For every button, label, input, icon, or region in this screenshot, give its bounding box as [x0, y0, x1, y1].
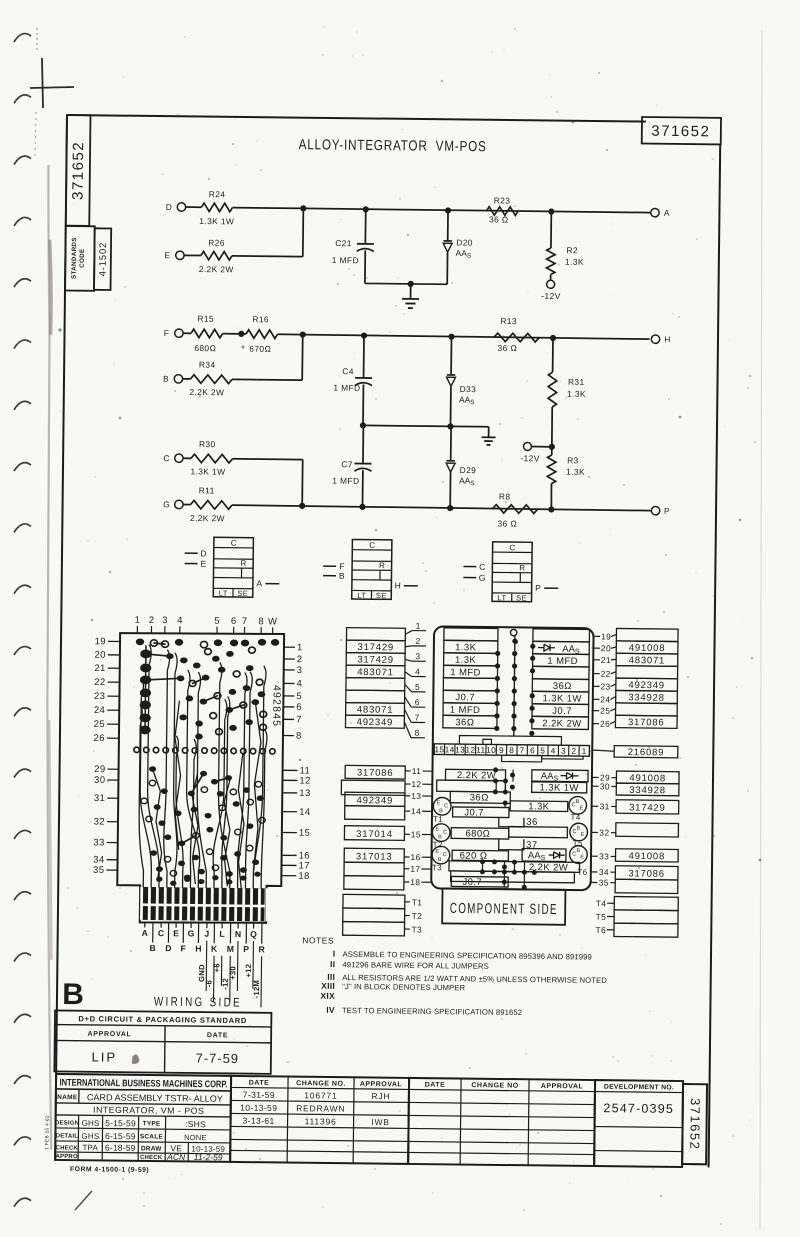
node C/G junction — [299, 503, 305, 509]
svg-text:J0.7: J0.7 — [455, 692, 475, 703]
svg-text:APPROVAL: APPROVAL — [360, 1081, 403, 1088]
svg-text:8: 8 — [509, 745, 514, 755]
svg-text:COMPONENT SIDE: COMPONENT SIDE — [450, 901, 558, 918]
svg-text:5: 5 — [214, 616, 220, 627]
node ground junction row1 — [408, 281, 414, 287]
svg-text:36 Ω: 36 Ω — [489, 214, 509, 224]
svg-text:33: 33 — [93, 837, 104, 848]
capacitor C4 — [363, 336, 365, 378]
part number boxes right rows 29-35 — [615, 771, 679, 893]
svg-text:7: 7 — [296, 714, 302, 725]
diode D33 — [450, 337, 452, 375]
svg-text:24: 24 — [94, 705, 105, 716]
svg-text:D20: D20 — [456, 237, 473, 247]
node P terminal — [651, 506, 659, 514]
node R2 junction — [548, 208, 554, 214]
svg-text:SCALE: SCALE — [140, 1133, 164, 1140]
svg-text:R8: R8 — [499, 491, 511, 501]
svg-text:C: C — [479, 562, 486, 572]
svg-text:G: G — [163, 499, 170, 509]
component box 680 ohm — [451, 828, 509, 839]
svg-text:1: 1 — [582, 746, 587, 756]
svg-text:1: 1 — [135, 615, 141, 626]
svg-text:R34: R34 — [199, 360, 216, 370]
svg-text:SE: SE — [237, 589, 248, 598]
resistor R2 — [546, 248, 555, 275]
component box AAS diode (upper) — [532, 770, 588, 782]
part number boxes right rows 19-26 — [615, 628, 678, 728]
svg-text:J0.7: J0.7 — [462, 877, 482, 888]
svg-text:21: 21 — [94, 663, 105, 674]
wire R30 to junction — [233, 458, 303, 461]
wire C to R30 — [183, 457, 191, 459]
svg-text::SHS: :SHS — [185, 1119, 206, 1129]
wire B to R34 — [183, 378, 191, 380]
diode row AAS with symbol — [538, 644, 555, 651]
svg-text:31: 31 — [600, 801, 610, 811]
svg-text:5: 5 — [296, 691, 302, 702]
svg-text:-6: -6 — [205, 980, 214, 987]
svg-text:14: 14 — [411, 806, 421, 816]
node G terminal — [175, 500, 183, 508]
svg-text:C7: C7 — [341, 459, 353, 469]
jumper step 37 — [499, 839, 524, 850]
svg-text:Q: Q — [250, 929, 257, 939]
resistor R8 — [492, 505, 537, 514]
svg-text:18: 18 — [410, 877, 420, 887]
svg-text:2.2K 2W: 2.2K 2W — [190, 513, 225, 523]
svg-text:-12V: -12V — [520, 453, 540, 463]
svg-text:491296 BARE WIRE FOR ALL JUMPE: 491296 BARE WIRE FOR ALL JUMPERS — [342, 960, 489, 971]
svg-text:317013: 317013 — [356, 851, 393, 862]
node C input — [463, 566, 476, 568]
title block table — [55, 1074, 232, 1162]
svg-text:T5: T5 — [596, 912, 607, 922]
svg-text:CHECK: CHECK — [140, 1155, 163, 1161]
svg-text:A: A — [142, 928, 148, 938]
svg-text:1.3K: 1.3K — [565, 257, 584, 267]
svg-text:F: F — [180, 943, 185, 953]
svg-text:J: J — [204, 929, 209, 939]
svg-text:1: 1 — [297, 642, 303, 653]
svg-text:2: 2 — [571, 746, 576, 756]
svg-text:483071: 483071 — [357, 667, 394, 678]
wire D to R24 — [186, 206, 202, 208]
svg-text:483071: 483071 — [629, 655, 666, 666]
svg-text:12: 12 — [411, 779, 421, 789]
component box J0.7 (lower) — [451, 876, 508, 887]
svg-text:1.3K: 1.3K — [567, 389, 586, 399]
svg-text:371652: 371652 — [651, 123, 710, 141]
node C terminal — [175, 454, 183, 462]
transistor T5 — [570, 823, 588, 841]
PCB wiring-side card outline — [117, 632, 284, 924]
svg-text:NONE: NONE — [184, 1133, 207, 1142]
node D/E junction — [300, 205, 306, 211]
svg-text:DATE: DATE — [425, 1082, 446, 1089]
COMPONENT SIDE label box — [442, 888, 565, 924]
svg-text:R: R — [240, 559, 246, 568]
svg-text:12: 12 — [465, 745, 475, 755]
svg-text:C: C — [369, 541, 375, 550]
svg-text:2: 2 — [415, 636, 420, 646]
PCB left pin numbers 29-35 — [93, 764, 119, 876]
node C7 junction — [359, 504, 365, 510]
svg-text:TPA: TPA — [82, 1143, 98, 1152]
svg-text:LT: LT — [498, 593, 507, 602]
svg-text:492349: 492349 — [357, 795, 394, 806]
node B terminal — [174, 375, 182, 383]
svg-text:NAME: NAME — [57, 1094, 78, 1101]
svg-text:6: 6 — [231, 616, 237, 627]
svg-text:317429: 317429 — [629, 802, 666, 813]
svg-text:491008: 491008 — [629, 851, 666, 862]
svg-text:C21: C21 — [335, 238, 352, 248]
svg-text:T3: T3 — [432, 863, 442, 872]
node D terminal — [177, 203, 185, 211]
node A terminal — [651, 208, 659, 216]
svg-text:36Ω: 36Ω — [470, 792, 489, 803]
component box J0.7 — [453, 807, 509, 818]
relay block H — [352, 539, 392, 599]
node R31 junction — [550, 335, 556, 341]
svg-text:11: 11 — [412, 766, 422, 776]
svg-text:11: 11 — [476, 745, 486, 755]
svg-text:NOTES: NOTES — [302, 935, 334, 945]
svg-text:C: C — [509, 543, 515, 552]
node H terminal — [651, 335, 659, 343]
svg-text:+30: +30 — [228, 966, 237, 980]
wire -12V to junction — [532, 445, 552, 447]
pin ticks 11-18 — [404, 766, 432, 887]
svg-text:A: A — [256, 578, 262, 588]
node C21 junction — [363, 206, 369, 212]
svg-text:20: 20 — [94, 650, 105, 661]
svg-text:R3: R3 — [567, 455, 579, 465]
svg-text:20: 20 — [601, 643, 611, 653]
svg-text:E: E — [436, 827, 440, 833]
svg-text:-12V: -12V — [541, 291, 561, 301]
node C4 junction — [361, 332, 367, 338]
svg-text:M: M — [227, 944, 234, 954]
svg-text:371652: 371652 — [70, 141, 88, 200]
node G input — [463, 577, 476, 579]
svg-text:I: I — [333, 949, 336, 959]
svg-text:15: 15 — [411, 829, 421, 839]
svg-text:4-1502: 4-1502 — [98, 242, 109, 277]
PCB connector fingers — [141, 887, 264, 921]
relay block A — [213, 537, 253, 597]
svg-text:22: 22 — [94, 677, 105, 688]
svg-text:C: C — [231, 539, 237, 548]
component box (empty right) — [509, 827, 568, 838]
wire R16 to junction — [278, 333, 303, 335]
svg-text:26: 26 — [600, 719, 610, 729]
svg-text:IWB: IWB — [371, 1117, 390, 1127]
middle bus — [514, 636, 515, 735]
svg-text:1 MFD: 1 MFD — [450, 667, 481, 678]
svg-text:D: D — [166, 202, 173, 212]
svg-text:2.2K 2W: 2.2K 2W — [189, 387, 224, 397]
marginal mark — [44, 1115, 49, 1150]
svg-text:3-13-61: 3-13-61 — [242, 1116, 274, 1126]
svg-text:30: 30 — [600, 781, 610, 791]
svg-text:36 Ω: 36 Ω — [497, 518, 517, 528]
svg-text:T4: T4 — [570, 813, 580, 822]
node F terminal — [175, 329, 183, 337]
svg-text:H: H — [395, 580, 402, 590]
wire R34 up to rail — [232, 378, 302, 381]
numbered terminal strip 15..1 — [434, 744, 589, 756]
svg-text:334928: 334928 — [628, 692, 665, 703]
svg-text:6-15-59: 6-15-59 — [105, 1131, 136, 1141]
wire R2 to -12V — [550, 274, 552, 280]
svg-text:13: 13 — [411, 791, 421, 801]
wire rail row1 — [303, 208, 650, 212]
svg-text:R23: R23 — [494, 195, 511, 205]
svg-text:16: 16 — [410, 852, 420, 862]
svg-text:T1: T1 — [412, 897, 423, 907]
wire links lower section — [495, 781, 497, 792]
svg-text:23: 23 — [600, 681, 610, 691]
svg-text:1.3K: 1.3K — [528, 801, 550, 812]
svg-text:REDRAWN: REDRAWN — [296, 1103, 345, 1114]
svg-text:7-31-59: 7-31-59 — [243, 1090, 275, 1100]
node -12V terminal row1 — [547, 280, 555, 288]
svg-text:1 MFD: 1 MFD — [333, 383, 360, 393]
svg-text:371652: 371652 — [687, 1098, 703, 1151]
svg-text:15: 15 — [299, 828, 310, 839]
PCB left pin numbers 19-26 — [93, 636, 120, 744]
pin ticks 29-35 — [591, 772, 617, 887]
node R3 bottom junction — [548, 506, 554, 512]
svg-text:36 Ω: 36 Ω — [497, 343, 517, 353]
svg-text:11-2-59: 11-2-59 — [194, 1152, 223, 1162]
svg-text:AAS: AAS — [562, 644, 580, 656]
svg-text:TYPE: TYPE — [143, 1120, 161, 1127]
svg-text:492349: 492349 — [357, 717, 394, 728]
svg-text:T6: T6 — [577, 868, 587, 877]
svg-text:CARD ASSEMBLY TSTR- ALLOY: CARD ASSEMBLY TSTR- ALLOY — [87, 1092, 223, 1104]
svg-text:STANDARDS: STANDARDS — [71, 237, 78, 279]
svg-text:II: II — [330, 959, 335, 969]
svg-text:1 MFD: 1 MFD — [332, 476, 359, 486]
notes — [301, 935, 607, 1018]
svg-text:R16: R16 — [252, 314, 269, 324]
svg-text:26: 26 — [93, 733, 104, 744]
svg-text:1.3K: 1.3K — [566, 467, 585, 477]
svg-text:H: H — [195, 944, 201, 954]
svg-text:1: 1 — [416, 621, 421, 631]
svg-text:317429: 317429 — [357, 642, 394, 653]
wire G to R11 — [183, 504, 190, 506]
svg-text:6: 6 — [530, 745, 535, 755]
ground row1 — [410, 284, 412, 299]
svg-text:4: 4 — [415, 666, 420, 676]
svg-text:R: R — [519, 563, 525, 572]
svg-text:"J" IN BLOCK DENOTES JUMPER: "J" IN BLOCK DENOTES JUMPER — [342, 982, 466, 992]
svg-text:D29: D29 — [460, 465, 477, 475]
svg-text:LIP: LIP — [91, 1049, 117, 1064]
svg-text:E: E — [437, 800, 441, 806]
svg-text:216089: 216089 — [628, 747, 665, 758]
svg-text:1.3K: 1.3K — [455, 642, 477, 653]
resistor R11 — [190, 500, 232, 509]
svg-text:34: 34 — [599, 867, 609, 877]
svg-text:7: 7 — [415, 712, 420, 722]
drawing number column 371652 (bottom right, rotated) — [682, 1084, 707, 1164]
svg-text:334928: 334928 — [629, 785, 666, 796]
component box 2.2K 2W (upper) — [445, 769, 505, 780]
node B input — [323, 575, 336, 577]
svg-text:B: B — [576, 848, 580, 854]
PCB right pin numbers 1-8 — [283, 642, 303, 742]
PCB connector contact letters row 1 — [142, 922, 258, 939]
resistor R15 — [191, 329, 223, 338]
svg-text:CODE: CODE — [79, 248, 86, 267]
change record table B — [408, 1078, 595, 1166]
svg-text:C: C — [444, 803, 448, 809]
svg-text:8: 8 — [414, 728, 419, 738]
PCB supply net names — [197, 941, 262, 1008]
svg-text:T4: T4 — [596, 898, 607, 908]
resistor R3 — [547, 455, 556, 484]
svg-text:106771: 106771 — [304, 1090, 337, 1100]
svg-text:B: B — [163, 374, 169, 384]
svg-text:317014: 317014 — [356, 829, 393, 840]
component-side card outline — [431, 626, 593, 890]
wire R2 branch — [550, 212, 552, 248]
resistor R16 — [246, 330, 278, 339]
svg-text:1 MFD: 1 MFD — [450, 705, 481, 716]
svg-text:D: D — [200, 548, 207, 558]
svg-text:C4: C4 — [342, 366, 354, 376]
svg-text:APPROVAL: APPROVAL — [88, 1031, 132, 1038]
svg-text:INTERNATIONAL BUSINESS MACHINE: INTERNATIONAL BUSINESS MACHINES CORP. — [59, 1077, 227, 1090]
svg-text:CHECK: CHECK — [56, 1145, 79, 1151]
svg-text:23: 23 — [94, 691, 105, 702]
svg-text:R15: R15 — [197, 313, 214, 323]
svg-text:9: 9 — [499, 745, 504, 755]
svg-text:R2: R2 — [566, 245, 578, 255]
svg-text:L: L — [219, 929, 224, 939]
svg-text:6-18-59: 6-18-59 — [105, 1142, 136, 1152]
wire bottom rail row1 — [365, 282, 447, 285]
ground mid — [488, 427, 490, 437]
svg-text:P: P — [664, 506, 670, 516]
svg-text:8: 8 — [296, 731, 302, 742]
component box 1.3K — [510, 801, 568, 812]
svg-text:R13: R13 — [500, 316, 517, 326]
PCB connector contact letters row 2 — [149, 922, 265, 954]
resistor R24 — [201, 203, 232, 212]
node -12V terminal row2 — [523, 442, 531, 450]
svg-text:2547-0395: 2547-0395 — [603, 1101, 674, 1116]
svg-text:C: C — [443, 830, 447, 836]
svg-text:18: 18 — [298, 871, 309, 882]
svg-text:33: 33 — [599, 851, 609, 861]
svg-text:492845: 492845 — [270, 685, 282, 727]
svg-text:APPRO: APPRO — [55, 1154, 78, 1160]
svg-text:DATE: DATE — [249, 1080, 270, 1087]
svg-text:SE: SE — [376, 591, 387, 600]
component box (wide empty) — [437, 780, 506, 792]
svg-text:E: E — [201, 559, 207, 569]
svg-text:13: 13 — [299, 788, 310, 799]
svg-text:1.3K 1W: 1.3K 1W — [190, 466, 225, 476]
svg-text:6: 6 — [415, 697, 420, 707]
svg-text:B: B — [576, 799, 580, 805]
node D33 junction — [448, 334, 454, 340]
svg-text:12: 12 — [299, 775, 310, 786]
part number boxes left rows 11-18 — [340, 765, 405, 890]
approval block — [54, 1010, 271, 1073]
change record table A — [230, 1076, 409, 1164]
svg-text:4: 4 — [296, 679, 302, 690]
svg-text:17: 17 — [410, 864, 420, 874]
svg-text:25: 25 — [600, 706, 610, 716]
component rows right column — [532, 629, 590, 730]
svg-text:+12: +12 — [244, 964, 253, 978]
svg-text:T3: T3 — [411, 924, 422, 934]
svg-text:ACN: ACN — [166, 1152, 186, 1162]
svg-text:19: 19 — [95, 636, 106, 647]
svg-text:AAS: AAS — [459, 475, 475, 487]
svg-text:4: 4 — [177, 615, 183, 626]
svg-text:317086: 317086 — [357, 768, 394, 779]
svg-text:D33: D33 — [460, 384, 477, 394]
svg-text:14: 14 — [299, 807, 310, 818]
strip bracket wires — [459, 735, 583, 762]
svg-text:E: E — [581, 832, 585, 838]
transistor T6 — [570, 846, 588, 864]
junction dots lower section — [480, 767, 538, 890]
component box AAS diode (lower) — [522, 849, 566, 862]
transistor T3 — [432, 846, 450, 864]
svg-text:J0.7: J0.7 — [552, 706, 572, 717]
component rows left column — [443, 628, 498, 729]
svg-text:FORM 4-1500-1 (9-59): FORM 4-1500-1 (9-59) — [70, 1166, 149, 1174]
svg-text:C: C — [443, 852, 447, 858]
svg-text:7: 7 — [520, 745, 525, 755]
PCB part number 492845 (rotated) — [270, 685, 282, 727]
resistor R26 — [201, 251, 232, 260]
svg-text:G: G — [188, 928, 195, 938]
svg-text:483071: 483071 — [357, 704, 394, 715]
svg-text:2: 2 — [149, 615, 155, 626]
svg-text:J0.7: J0.7 — [464, 807, 484, 818]
diode D20 — [447, 210, 449, 240]
svg-text:1.3K 1W: 1.3K 1W — [540, 782, 579, 793]
svg-text:1 MFD: 1 MFD — [547, 656, 578, 667]
svg-text:E: E — [435, 849, 439, 855]
svg-text:32: 32 — [94, 816, 105, 827]
svg-text:492349: 492349 — [628, 680, 665, 691]
node D29 junction — [447, 505, 453, 511]
svg-text:8: 8 — [258, 616, 264, 627]
svg-text:XIX: XIX — [320, 991, 335, 1001]
svg-text:30: 30 — [94, 775, 105, 786]
svg-text:1 FEB 10 4-62: 1 FEB 10 4-62 — [44, 1115, 49, 1150]
svg-text:LT: LT — [219, 589, 228, 598]
svg-text:H: H — [664, 334, 671, 344]
wire mid rail — [363, 425, 489, 426]
svg-text:5: 5 — [540, 745, 545, 755]
svg-text:G: G — [479, 573, 486, 583]
svg-text:31: 31 — [94, 793, 105, 804]
PCB pads and traces — [132, 637, 279, 888]
wire: sheet border right — [709, 144, 721, 1167]
